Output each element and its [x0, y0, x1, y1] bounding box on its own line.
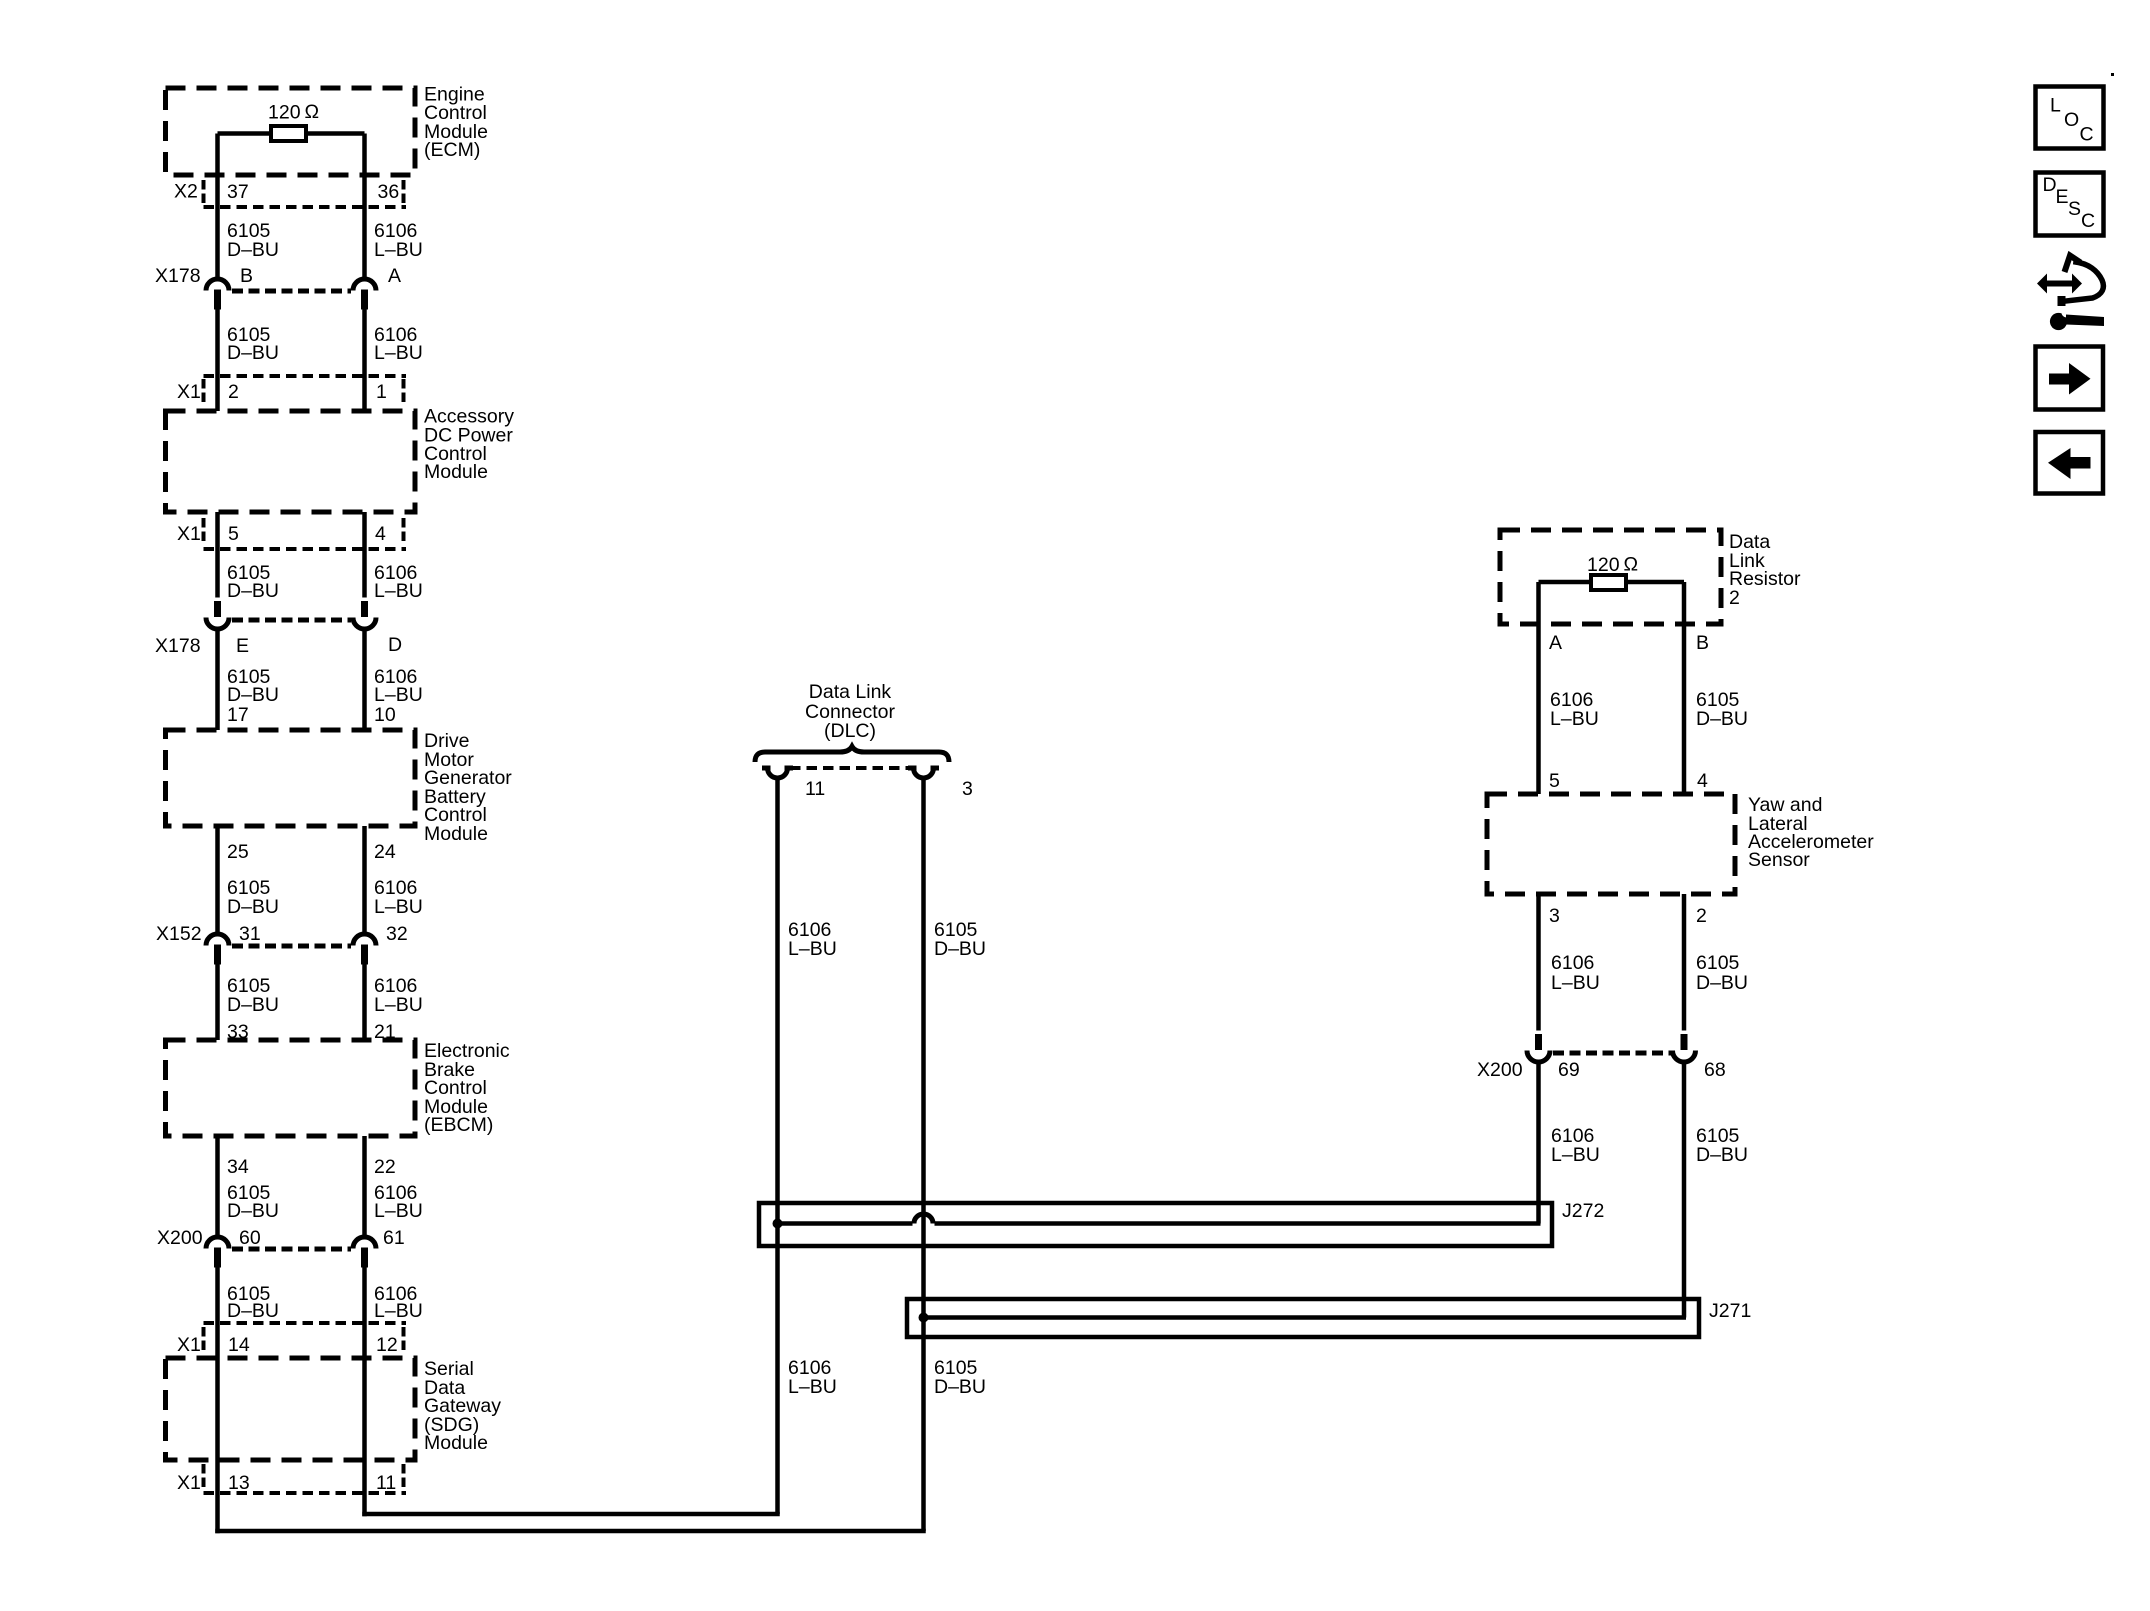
svg-text:Sensor: Sensor [1748, 849, 1810, 871]
inline connector X178 terminals E / D [155, 601, 402, 657]
wire labels 6106 L-BU / 6105 D-BU (bottom) [788, 1357, 986, 1398]
svg-text:61: 61 [383, 1227, 405, 1249]
wire labels 6106 L-BU / 6105 D-BU (DLC wires) [788, 919, 986, 960]
icon LOC [2036, 87, 2104, 149]
svg-text:2: 2 [228, 381, 239, 403]
svg-text:120: 120 [1587, 554, 1620, 576]
svg-text:L–BU: L–BU [374, 896, 423, 918]
svg-text:L–BU: L–BU [374, 1300, 423, 1322]
icon service: double arrow [2037, 256, 2104, 331]
splice J272 [759, 1200, 1604, 1246]
connector X1 row (SDG pins 14/12) [177, 1323, 406, 1356]
icon DESC [2036, 173, 2104, 236]
svg-text:D–BU: D–BU [227, 1200, 279, 1222]
svg-text:L–BU: L–BU [1551, 972, 1600, 994]
wire 6105 D-BU (pin 25 to X152-31) [215, 826, 220, 934]
wire 6106 L-BU (pin 22 to X200-61) [362, 1136, 367, 1237]
DLC terminal 11 [762, 768, 825, 800]
module box ECM: Engine Control Module [166, 84, 488, 176]
svg-text:Ω: Ω [305, 101, 320, 123]
svg-text:D–BU: D–BU [227, 239, 279, 261]
wire labels 6106 L-BU / 6105 D-BU (below X200 69/68) [1551, 1125, 1748, 1166]
svg-text:L–BU: L–BU [788, 938, 837, 960]
svg-text:X178: X178 [155, 265, 201, 287]
svg-text:D: D [388, 634, 402, 656]
wire 6106 L-BU (sensor 3 to X200-69) [1536, 894, 1541, 1031]
svg-text:X178: X178 [155, 635, 201, 657]
wire labels 6105 D-BU / 6106 L-BU (above pins 17/10) [227, 666, 423, 706]
wire 6105 D-BU (sensor 2 to X200-68) [1682, 894, 1687, 1031]
svg-text:A: A [388, 265, 401, 287]
module box: Serial Data Gateway (SDG) Module [166, 1358, 502, 1460]
svg-text:4: 4 [1697, 770, 1708, 792]
svg-text:31: 31 [239, 923, 261, 945]
svg-text:32: 32 [386, 923, 408, 945]
module box: Electronic Brake Control Module (EBCM) [166, 1040, 510, 1136]
svg-text:Data Link: Data Link [809, 681, 892, 703]
wire labels 6105 D-BU / 6106 L-BU (above X152) [227, 877, 423, 918]
svg-text:C: C [2080, 124, 2094, 146]
svg-text:11: 11 [376, 1472, 396, 1494]
svg-text:Module: Module [424, 1432, 488, 1454]
svg-text:12: 12 [376, 1334, 398, 1356]
connector X2 row (ECM pins 37/36) [174, 180, 406, 207]
wire 6106 L-BU bottom run (SDG-11 to DLC-11 wire) [362, 1512, 780, 1517]
connector X1 row (Accessory pins 5/4) [177, 518, 406, 549]
svg-text:X152: X152 [156, 923, 202, 945]
svg-text:69: 69 [1558, 1059, 1580, 1081]
svg-text:B: B [240, 265, 253, 287]
svg-text:11: 11 [805, 778, 825, 800]
svg-text:D–BU: D–BU [1696, 1144, 1748, 1166]
resistor 120 ohm (Data Link Resistor) [1539, 554, 1685, 591]
wire 6106 L-BU (X152-32 to pin 21) [362, 965, 367, 1041]
wire labels 6106 L-BU / 6105 D-BU (resistor wires) [1550, 689, 1748, 730]
resistor 120 ohm inside ECM [218, 101, 365, 141]
wire labels 6105 D-BU / 6106 L-BU (above X200) [227, 1182, 423, 1222]
svg-text:L: L [2050, 95, 2061, 117]
svg-text:Module: Module [424, 461, 488, 483]
icon back arrow [2036, 432, 2104, 494]
svg-text:L–BU: L–BU [374, 342, 423, 364]
svg-text:O: O [2064, 109, 2079, 131]
svg-text:3: 3 [962, 778, 973, 800]
svg-text:D–BU: D–BU [1696, 708, 1748, 730]
wire labels 6105 D-BU / 6106 L-BU (above pins 33/21) [227, 975, 423, 1016]
svg-text:37: 37 [227, 181, 249, 203]
DLC connector dashed line [790, 766, 911, 770]
splice J271 [907, 1299, 1751, 1337]
svg-text:Module: Module [424, 823, 488, 845]
svg-text:D: D [2043, 174, 2057, 196]
DLC terminal 3 [908, 768, 973, 800]
svg-text:X2: X2 [174, 181, 198, 203]
svg-text:Ω: Ω [1624, 554, 1639, 576]
wire labels 6105 D-BU / 6106 L-BU (above X1) [227, 324, 423, 364]
svg-text:C: C [2081, 210, 2095, 232]
module box: Data Link Resistor 2 [1500, 530, 1801, 624]
svg-text:X1: X1 [177, 381, 201, 403]
svg-text:D–BU: D–BU [1696, 972, 1748, 994]
wire 6105 D-BU (X200-60 to X1-14) [215, 1268, 220, 1324]
wire 6106 L-BU (X178-D to pin 10) [362, 631, 367, 731]
wire 6106 L-BU (DLC 11 down) [775, 778, 780, 1515]
svg-text:L–BU: L–BU [374, 684, 423, 706]
wire 6105 D-BU (X152-31 to pin 33) [215, 965, 220, 1041]
svg-text:X1: X1 [177, 1334, 201, 1356]
svg-text:4: 4 [375, 523, 386, 545]
wire 6105 D-BU (ECM pin 37 down) [215, 134, 220, 280]
svg-text:3: 3 [1549, 905, 1560, 927]
svg-text:L–BU: L–BU [374, 580, 423, 602]
wire 6106 L-BU segment to X1 pin 1 [362, 310, 367, 412]
svg-text:D–BU: D–BU [227, 580, 279, 602]
DLC brace [755, 747, 949, 763]
icon service: curved hose/loop [2062, 262, 2104, 302]
wire 6105 D-BU segment to X1 pin 2 [215, 310, 220, 412]
svg-text:2: 2 [1729, 587, 1740, 609]
connector X1 row (Accessory pins 2/1) [177, 376, 406, 404]
svg-text:J272: J272 [1562, 1200, 1604, 1222]
svg-text:L–BU: L–BU [374, 239, 423, 261]
inline connector X178 terminals B / A [155, 265, 401, 310]
svg-text:13: 13 [228, 1472, 250, 1494]
svg-text:D–BU: D–BU [227, 994, 279, 1016]
module box: Accessory DC Power Control Module [166, 406, 515, 513]
svg-text:J271: J271 [1709, 1300, 1751, 1322]
svg-text:6106: 6106 [1551, 952, 1594, 974]
svg-text:S: S [2068, 198, 2081, 220]
svg-text:5: 5 [1549, 770, 1560, 792]
svg-text:X200: X200 [1477, 1059, 1523, 1081]
wire 6106 L-BU (X200-61 to X1-12) [362, 1268, 367, 1324]
svg-text:10: 10 [374, 704, 396, 726]
inline connector X152 terminals 31 / 32 [156, 923, 408, 965]
wire 6105 D-BU (X178-E to pin 17) [215, 631, 220, 731]
wire 6105 D-BU (DLC 3 down) [921, 778, 926, 1532]
wire 6106 L-BU (pin 24 to X152-32) [362, 826, 367, 934]
svg-text:68: 68 [1704, 1059, 1726, 1081]
svg-text:14: 14 [228, 1334, 250, 1356]
wire 6106 through SDG (pin 12 to 11) [362, 1323, 367, 1516]
svg-text:24: 24 [374, 841, 396, 863]
svg-text:120: 120 [268, 102, 301, 124]
svg-text:X1: X1 [177, 523, 201, 545]
module box: Yaw and Lateral Accelerometer Sensor [1487, 794, 1874, 894]
svg-text:L–BU: L–BU [374, 1200, 423, 1222]
icon service: wrench [2050, 313, 2067, 330]
svg-text:60: 60 [239, 1227, 261, 1249]
svg-text:D–BU: D–BU [227, 896, 279, 918]
svg-text:(ECM): (ECM) [424, 139, 480, 161]
wire 6105 D-BU bottom run (SDG-13 to DLC-3 wire) [215, 1529, 926, 1534]
wire 6105 D-BU (resistor B down) [1682, 582, 1687, 794]
wire 6106 L-BU (X1-4 to X178-D) [362, 512, 367, 598]
svg-text:(EBCM): (EBCM) [424, 1114, 493, 1136]
wire labels 6105 D-BU / 6106 L-BU (below X2) [227, 220, 423, 261]
svg-text:D–BU: D–BU [227, 684, 279, 706]
wire 6105 through SDG (pin 14 to 13) [215, 1323, 220, 1533]
svg-text:(DLC): (DLC) [824, 720, 876, 742]
svg-text:6105: 6105 [1696, 952, 1740, 974]
svg-text:1: 1 [376, 381, 387, 403]
inline connector X200 terminals 69 / 68 [1477, 1034, 1726, 1081]
wire labels 6105 D-BU / 6106 L-BU (above X1 14/12) [227, 1283, 423, 1322]
svg-text:D–BU: D–BU [227, 342, 279, 364]
module box: Drive Motor Generator Battery Control Module [166, 730, 513, 845]
wire 6105 D-BU (X200-68 to J271) [1682, 1064, 1687, 1318]
icon forward arrow [2036, 347, 2104, 410]
svg-text:L–BU: L–BU [374, 994, 423, 1016]
wire 6105 D-BU (pin 34 to X200-60) [215, 1136, 220, 1237]
wire 6106 L-BU (X200-69 to J272) [1536, 1064, 1541, 1224]
svg-text:D–BU: D–BU [934, 938, 986, 960]
svg-text:5: 5 [228, 523, 239, 545]
svg-text:17: 17 [227, 704, 249, 726]
wire labels 6105 D-BU / 6106 L-BU (above X178 E/D) [227, 562, 423, 602]
svg-text:34: 34 [227, 1156, 249, 1178]
wire hop over 6105 wire [914, 1214, 933, 1224]
svg-text:D–BU: D–BU [227, 1300, 279, 1322]
wire 6106 L-BU (resistor A down) [1536, 582, 1541, 794]
svg-text:X200: X200 [157, 1227, 203, 1249]
inline connector X200 terminals 60 / 61 [157, 1227, 405, 1268]
svg-text:25: 25 [227, 841, 249, 863]
Data Link Connector (DLC) label [805, 681, 895, 742]
wire labels 6106 L-BU / 6105 D-BU (above X200 69/68) [1551, 952, 1748, 994]
wire 6105 D-BU (X1-5 to X178-E) [215, 512, 220, 598]
speck [2111, 73, 2114, 76]
svg-text:X1: X1 [177, 1472, 201, 1494]
svg-text:E: E [2056, 186, 2069, 208]
wire 6106 L-BU (ECM pin 36 down) [362, 134, 367, 280]
svg-text:22: 22 [374, 1156, 396, 1178]
svg-text:36: 36 [378, 181, 400, 203]
svg-text:L–BU: L–BU [1550, 708, 1599, 730]
svg-text:E: E [236, 635, 249, 657]
svg-text:L–BU: L–BU [788, 1376, 837, 1398]
svg-text:A: A [1549, 632, 1562, 654]
connector X1 row (SDG pins 13/11) [177, 1464, 406, 1494]
svg-text:B: B [1696, 632, 1709, 654]
svg-text:D–BU: D–BU [934, 1376, 986, 1398]
svg-text:L–BU: L–BU [1551, 1144, 1600, 1166]
svg-text:2: 2 [1696, 905, 1707, 927]
